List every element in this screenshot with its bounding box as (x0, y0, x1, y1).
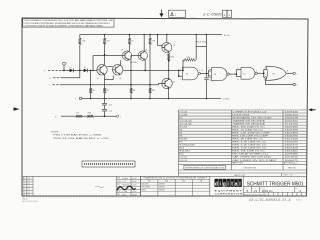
perforation dashes (23, 196, 200, 198)
svg-text:4-6: 4-6 (28, 191, 30, 193)
paper tint (22, 18, 307, 196)
svg-text:D1: D1 (23, 186, 25, 188)
svg-text:R.Hale: R.Hale (122, 178, 128, 180)
svg-text:THIS SCHEMATIC IS FURNISHED ON: THIS SCHEMATIC IS FURNISHED ONLY FOR TES… (24, 19, 113, 22)
diode D2 (84, 67, 88, 72)
svg-text:DEC DELAY 50 NSEC DL1: DEC DELAY 50 NSEC DL1 (232, 153, 269, 156)
svg-text:A PL M501-0-1: A PL M501-0-1 (284, 162, 297, 165)
resistor R4 (89, 70, 94, 98)
svg-text:4-6: 4-6 (28, 189, 30, 191)
svg-text:Q3: Q3 (121, 50, 123, 52)
resistor R5 (103, 35, 109, 65)
junction dots gate input node (144, 70, 179, 77)
svg-text:10: 10 (237, 79, 239, 81)
svg-text:COPYRIGHT 1968 BY DIGITAL EQUI: COPYRIGHT 1968 BY DIGITAL EQUIPMENT CORP… (24, 25, 104, 28)
transistor Q1 (97, 65, 108, 80)
wire E2a to E2b (257, 70, 267, 78)
svg-text:PARTS LIST: PARTS LIST (232, 162, 243, 165)
wire Q5 collector to rail (166, 35, 168, 43)
svg-text:Q2,Q4,Q6: Q2,Q4,Q6 (179, 123, 193, 125)
svg-text:MFG: MFG (117, 194, 120, 196)
wire E1b to E2a (229, 70, 241, 77)
svg-text:R8,R9: R8,R9 (179, 139, 188, 141)
NOR gate E2 (b) (265, 66, 287, 80)
title band top line (22, 175, 307, 177)
svg-text:1: 1 (175, 14, 177, 17)
svg-text:J.Cl: J.Cl (122, 181, 126, 183)
wire Q1 emitter to R6 (104, 74, 113, 79)
svg-text:PRINTED CIRCUIT REV.: PRINTED CIRCUIT REV. (244, 194, 264, 196)
svg-text:T: T (120, 116, 121, 118)
junction dots on +5V rail (104, 34, 208, 36)
svg-text:4-6: 4-6 (28, 194, 30, 196)
revision box with delta marker (169, 10, 186, 17)
svg-text:1000075: 1000075 (285, 160, 300, 162)
svg-text:2N3639: 2N3639 (159, 183, 165, 185)
resistor R10 (87, 113, 94, 118)
wire E1a to E1b (200, 73, 208, 75)
svg-text:CONNECTOR H-803-1-C3: CONNECTOR H-803-1-C3 (232, 111, 267, 113)
wire node to gate inputs (123, 70, 182, 76)
resistor R15 (167, 52, 174, 78)
transistor Q5 (162, 43, 175, 53)
svg-text:D2: D2 (84, 67, 86, 69)
svg-text:D1,D8: D1,D8 (179, 114, 188, 116)
svg-text:11: 11 (287, 71, 289, 73)
svg-text:d: d (215, 182, 218, 188)
size code number rev row (244, 187, 301, 194)
svg-text:9-5-68: 9-5-68 (132, 178, 137, 180)
svg-text:D-CS-M501-0-1: D-CS-M501-0-1 (249, 198, 291, 202)
svg-text:4-6: 4-6 (28, 180, 30, 182)
svg-text:RES. 1K 1/4W 5% CC: RES. 1K 1/4W 5% CC (232, 130, 263, 132)
title underline (243, 186, 306, 188)
svg-text:1513100: 1513100 (285, 123, 300, 125)
svg-text:E2: E2 (273, 73, 275, 75)
svg-text:12: 12 (264, 67, 266, 69)
wire R2 to R10 (83, 115, 87, 117)
svg-text:1N3606: 1N3606 (159, 189, 165, 191)
svg-text:DIODE D664: DIODE D664 (232, 114, 250, 116)
svg-text:1905578: 1905578 (285, 117, 300, 119)
node R8 junctions (130, 70, 132, 86)
svg-text:C1: C1 (23, 183, 25, 185)
capacitor C4 on supply dropper (204, 47, 211, 99)
wire Q4 base to node (131, 56, 138, 71)
svg-text:2: 2 (224, 13, 226, 17)
parts list table entries (179, 111, 299, 161)
zone marker arrow (right margin) (308, 108, 315, 111)
svg-text:R6: R6 (106, 90, 108, 92)
svg-text:E Q U I P M E N T: E Q U I P M E N T (215, 190, 243, 192)
node Q6 collector junctions (168, 60, 170, 80)
svg-text:R16: R16 (187, 57, 190, 59)
svg-text:1100114: 1100114 (285, 114, 300, 116)
form number note (22, 198, 37, 204)
signature and date block (116, 176, 140, 196)
svg-text:9-9-68: 9-9-68 (132, 194, 137, 196)
svg-text:R8: R8 (133, 90, 135, 92)
parts list title row (179, 173, 307, 177)
transistor Q3 (121, 50, 132, 61)
+5V rail (top) (80, 34, 222, 36)
wire Q2 collector to Q3 emitter (120, 60, 122, 65)
wire to terminal T (94, 115, 121, 118)
svg-text:R2: R2 (77, 113, 79, 115)
svg-text:DEC 16-(1034)-1003-A: DEC 16-(1034)-1003-A (22, 200, 37, 203)
svg-text:Q2: Q2 (120, 78, 122, 80)
svg-text:10: 10 (180, 79, 182, 81)
NAND gate E1 (a) (183, 67, 201, 80)
parts list column headers (179, 165, 307, 170)
svg-text:J: J (49, 85, 50, 87)
input wire 2 (pin H) (53, 70, 80, 77)
drawing border frame (22, 18, 308, 196)
svg-text:1300295: 1300295 (285, 142, 300, 144)
svg-text:C GND: C GND (223, 99, 230, 101)
svg-text:R11,R12: R11,R12 (179, 151, 191, 153)
node C4 tap junction (206, 73, 208, 75)
svg-text:E: E (66, 62, 67, 64)
svg-text:Q6: Q6 (173, 82, 175, 84)
svg-text:t: t (231, 182, 233, 188)
parts list doc number row (179, 162, 307, 165)
resistor R2 (76, 113, 83, 118)
DEC digital logo (215, 179, 242, 188)
svg-text:ENG: ENG (117, 184, 120, 186)
svg-text:Q5: Q5 (173, 45, 175, 47)
svg-text:CAP. 6.8MFD 35V 10% S.TANT: CAP. 6.8MFD 35V 10% S.TANT (232, 159, 277, 162)
svg-text:CAP. 47MFD 50V 50% DISC: CAP. 47MFD 50V 50% DISC (232, 156, 272, 159)
svg-text:CHK'D: CHK'D (117, 181, 121, 183)
svg-text:1 of 1: 1 of 1 (296, 200, 302, 202)
svg-text:C1,C6: C1,C6 (179, 111, 188, 113)
svg-text:1301401: 1301401 (285, 151, 300, 153)
input wire 3 (pin J) to Q6 base (53, 84, 165, 85)
resistor R9 (149, 35, 156, 71)
svg-text:DRN: DRN (117, 178, 120, 180)
svg-text:1300396: 1300396 (285, 130, 300, 132)
svg-text:9-6-68: 9-6-68 (132, 185, 137, 187)
svg-text:PIN 7 ON EACH MC = GND: PIN 7 ON EACH MC = GND (53, 134, 102, 137)
svg-text:1302426: 1302426 (285, 148, 300, 150)
input wire (pin F) (48, 69, 70, 71)
node Q1 base junction (63, 70, 94, 86)
junction dots on ground rail (90, 98, 208, 100)
svg-text:1301346: 1301346 (285, 139, 300, 141)
NAND gate E2 (a) (241, 67, 257, 79)
svg-text:9-6-68: 9-6-68 (132, 181, 137, 183)
wire Q3 collector to R7 (128, 48, 130, 51)
wire Q5 base feed (158, 35, 163, 48)
size row underline (243, 191, 306, 193)
module connector contact strip (82, 161, 135, 167)
svg-text:1300365: 1300365 (285, 126, 300, 128)
svg-text:B1: B1 (23, 180, 25, 182)
svg-text:RES. 7.5K 1/4W 5% CC: RES. 7.5K 1/4W 5% CC (232, 148, 267, 150)
svg-text:g: g (223, 182, 226, 188)
svg-text:PART NO.: PART NO. (288, 167, 297, 170)
svg-text:RES. 5.1K 1/4W 5% CC: RES. 5.1K 1/4W 5% CC (232, 145, 267, 147)
resistor R6 (103, 80, 108, 99)
svg-text:C3,C4: C3,C4 (179, 160, 188, 162)
svg-text:+C 16: +C 16 (108, 110, 112, 112)
node D1-D2 junction (79, 70, 81, 72)
node R12 junction (149, 84, 151, 86)
revision arrow (top margin) (159, 10, 163, 18)
wire lower output to pin K (266, 78, 299, 86)
wire E2b output to pin J (286, 72, 297, 75)
wire C6 to power bus (104, 111, 106, 116)
wire Q3 base feed (93, 56, 122, 71)
transistor Q2 (113, 65, 123, 80)
printed circuit rev boxes (244, 192, 307, 196)
svg-text:E2: E2 (243, 73, 245, 75)
svg-text:D1: D1 (70, 67, 72, 69)
resistor R7 (128, 35, 134, 49)
capacitor C6 (102, 105, 112, 112)
node R16 tap junction (182, 70, 184, 72)
svg-text:2-C-05M1: 2-C-05M1 (202, 13, 222, 17)
svg-text:R12: R12 (152, 90, 155, 92)
resistor R16 (183, 47, 196, 71)
svg-text:PIN 14 ON EACH MC = +5V: PIN 14 ON EACH MC = +5V (53, 137, 109, 140)
svg-text:1300373: 1300373 (285, 145, 300, 147)
zone marker arrow (left margin) (14, 107, 20, 110)
wire Q6 emitter to ground (168, 88, 170, 99)
svg-text:C2,C5: C2,C5 (179, 157, 188, 159)
svg-text:G1: G1 (23, 194, 25, 196)
title block divider (242, 176, 244, 196)
transistor-diode conversion chart (141, 176, 210, 196)
notes text block (51, 132, 110, 141)
svg-text:A +5V: A +5V (224, 34, 230, 37)
input terminal circle (63, 62, 68, 70)
svg-text:RES. 4.7K 1/4W 5% CC: RES. 4.7K 1/4W 5% CC (232, 142, 267, 144)
svg-text:12: 12 (201, 70, 203, 72)
IC power box DEC7014 (196, 35, 207, 47)
parts list table grid (179, 110, 307, 176)
gate pin numbers (180, 67, 289, 84)
margin box 2 (222, 10, 227, 17)
svg-text:C4: C4 (209, 79, 211, 81)
svg-text:DESCRIPTION: DESCRIPTION (244, 168, 257, 170)
svg-text:F1: F1 (23, 191, 25, 193)
svg-text:R15: R15 (171, 57, 174, 59)
revision history table (22, 176, 33, 196)
gate E1b input stubs (208, 70, 211, 76)
svg-text:Q1,Q3,Q5: Q1,Q3,Q5 (179, 120, 193, 122)
svg-text:J: J (297, 74, 298, 76)
svg-text:Q1: Q1 (97, 78, 99, 80)
proprietary notice box (23, 19, 114, 28)
faint pencil mark (center band) (95, 186, 104, 187)
svg-text:RES. 3K 1/4W 5% CC: RES. 3K 1/4W 5% CC (232, 139, 263, 141)
margin box 1 (227, 10, 232, 17)
svg-text:R10: R10 (88, 113, 91, 115)
transistor Q4 (138, 50, 147, 61)
svg-text:TRANSISTOR DEC3639B: TRANSISTOR DEC3639B (232, 119, 265, 122)
svg-text:D664: D664 (142, 189, 146, 191)
svg-text:RES. 15K 1/4W 5% COMP: RES. 15K 1/4W 5% COMP (232, 136, 269, 138)
svg-text:4-6: 4-6 (28, 183, 30, 185)
svg-text:a: a (235, 182, 238, 188)
svg-text:E1: E1 (214, 74, 216, 76)
svg-text:2N4258: 2N4258 (159, 186, 165, 188)
svg-text:RES. 1.5K 1/4W 5% COMP: RES. 1.5K 1/4W 5% COMP (232, 133, 270, 135)
svg-text:T: T (75, 99, 76, 101)
svg-text:Q4: Q4 (145, 50, 147, 52)
resistor R8 (130, 70, 135, 98)
capacitor C1 (102, 99, 112, 107)
svg-text:470: 470 (106, 41, 109, 43)
power input wire (pin S) (61, 115, 76, 117)
svg-text:1209340: 1209340 (285, 111, 300, 113)
resistor R12 (149, 70, 155, 98)
svg-text:R4: R4 (92, 90, 94, 92)
svg-text:E1: E1 (186, 74, 188, 76)
wire D1-D2 (74, 69, 84, 71)
svg-text:DEC3639: DEC3639 (142, 183, 149, 185)
svg-text:1: 1 (228, 13, 230, 17)
diode D1 (70, 67, 74, 72)
svg-text:INTEGRATED CKT DEC7414N: INTEGRATED CKT DEC7414N (232, 116, 272, 119)
svg-text:RES. 390 1/4W 5% CC: RES. 390 1/4W 5% CC (232, 126, 265, 128)
wire Q1-Q2 link (107, 65, 112, 67)
svg-text:RES. 15K 1/4W 5% CC: RES. 15K 1/4W 5% CC (232, 151, 265, 153)
svg-text:CIRCUITS ARE PROPRIETARY IN NA: CIRCUITS ARE PROPRIETARY IN NATURE AND S… (24, 22, 111, 25)
svg-text:1009486: 1009486 (285, 154, 300, 156)
svg-text:+C 15: +C 15 (108, 104, 112, 106)
svg-text:PROD: PROD (117, 191, 121, 193)
approval scribble (117, 186, 136, 190)
svg-text:9-9-68: 9-9-68 (132, 191, 137, 193)
svg-text:1001610: 1001610 (285, 157, 300, 159)
svg-text:TRANSISTOR DEC6534B: TRANSISTOR DEC6534B (232, 122, 265, 125)
wire Q3 emitter down (119, 59, 121, 61)
svg-text:R1,R4: R1,R4 (179, 126, 188, 128)
svg-text:4-6: 4-6 (28, 177, 30, 179)
svg-text:REFERENCE DESIGNATION: REFERENCE DESIGNATION (185, 166, 225, 169)
svg-text:1301393: 1301393 (285, 133, 300, 135)
svg-text:E1: E1 (23, 189, 25, 191)
svg-text:1300296: 1300296 (285, 136, 300, 138)
ground rail (79, 97, 221, 100)
svg-text:DEC6534B: DEC6534B (142, 186, 150, 188)
wire Q4 emitter (144, 60, 146, 70)
resistor R1 (79, 35, 87, 71)
node Q1 collector junction (104, 54, 106, 56)
svg-text:DRA 110: DRA 110 (22, 198, 28, 201)
wire Q4 collector to rail (143, 35, 145, 52)
NAND gate E1 (b) (209, 68, 229, 81)
svg-text:R7,R14,R16: R7,R14,R16 (179, 145, 196, 147)
wire D2 to Q1 base (88, 69, 97, 71)
svg-text:NOTES:: NOTES: (51, 132, 59, 134)
svg-text:DEC8 7014: DEC8 7014 (196, 42, 207, 44)
svg-text:1505322: 1505322 (285, 120, 300, 122)
svg-text:4-6: 4-6 (28, 186, 30, 188)
transistor Q6 (162, 78, 175, 88)
